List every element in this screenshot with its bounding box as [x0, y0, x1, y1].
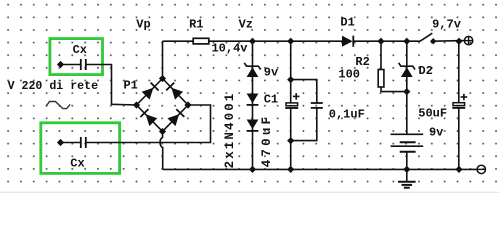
resistor R1: [193, 38, 209, 44]
wire bottom rail: [163, 168, 477, 170]
svg-text:C1: C1: [264, 92, 278, 106]
node zener column bottom: [249, 166, 256, 173]
bottom border line: [0, 191, 499, 193]
wire D2 column: [406, 41, 408, 134]
wire R2 top lead: [380, 41, 382, 69]
capacitor 50uF plates: [453, 103, 465, 106]
svg-text:9v: 9v: [429, 126, 443, 140]
wire 50uF column upper: [458, 41, 460, 102]
node battery bottom: [403, 166, 410, 173]
diode 1N4001 #2: [247, 120, 259, 130]
svg-text:D2: D2: [418, 64, 432, 78]
node 50uF top junction: [455, 38, 462, 45]
switch S1 contact: [430, 38, 436, 44]
node C1 top junction: [287, 38, 294, 45]
terminal - output: [477, 165, 485, 173]
capacitor 0.1uF plates: [311, 102, 323, 104]
switch S1 lever: [420, 33, 432, 41]
svg-text:50uF: 50uF: [418, 106, 447, 120]
capacitor Cx upper: [61, 64, 81, 66]
battery 9v: [391, 133, 424, 135]
wire lower Cx to bridge AC2: [86, 105, 211, 143]
node R2 top junction: [377, 38, 384, 45]
svg-text:Cx: Cx: [70, 156, 84, 170]
capacitor Cx lower: [61, 142, 81, 144]
svg-text:V 220 di rete: V 220 di rete: [8, 80, 98, 93]
node 0.1uF return junction: [287, 137, 294, 144]
svg-text:100: 100: [338, 67, 360, 81]
node C1 bottom: [287, 166, 294, 173]
svg-text:Cx: Cx: [73, 43, 87, 57]
bridge diode lower-left (B to L): [146, 114, 158, 126]
node input terminal lower: [57, 139, 64, 146]
wire zener column: [252, 41, 254, 169]
node 50uF bottom: [455, 166, 462, 173]
svg-text:0,1uF: 0,1uF: [329, 107, 365, 121]
resistor R2 100: [378, 70, 384, 88]
node bridge AC left: [133, 101, 140, 108]
node Vz junction: [249, 38, 256, 45]
node D2 top junction: [403, 38, 410, 45]
node Vp junction (bridge top): [159, 75, 166, 82]
diode 1N4001 #1: [247, 94, 259, 104]
wire bridge+ riser: [162, 41, 164, 78]
AC source symbol: [46, 102, 70, 109]
svg-text:Vp: Vp: [136, 17, 150, 31]
node R2/D2 junction: [403, 88, 410, 95]
wire top rail switch to output: [433, 40, 464, 43]
svg-text:10,4v: 10,4v: [211, 41, 247, 55]
wire top rail R1 to D1: [209, 40, 342, 42]
wire 0.1uF bottom loop to C1 column: [291, 108, 317, 141]
svg-text:470uF: 470uF: [260, 114, 274, 168]
wire C1 column upper: [290, 41, 292, 103]
wire branch to 0.1uF: [291, 80, 317, 103]
wire bridge- to ground rail with hop: [160, 132, 163, 170]
terminal + output: [464, 36, 472, 44]
node bridge minus: [159, 128, 166, 135]
capacitor C1 470uF plus sign: [293, 95, 300, 97]
svg-text:9v: 9v: [264, 66, 278, 80]
bridge diode upper-right (R to T): [171, 88, 183, 100]
wire R2 bottom to D2 column: [381, 87, 407, 92]
wire top rail left segment (bridge+ to R1): [163, 40, 194, 42]
node input terminal upper: [57, 61, 64, 68]
wire C1 column lower: [290, 108, 292, 169]
zener D2: [401, 67, 413, 77]
node 0.1uF branch: [287, 76, 294, 83]
bridge diode lower-right (B to R): [167, 114, 179, 126]
svg-text:2x1N4001: 2x1N4001: [223, 92, 237, 169]
svg-text:9,7v: 9,7v: [432, 18, 461, 32]
node bridge AC right: [184, 101, 191, 108]
green highlight box upper Cx: [50, 39, 103, 75]
wire top rail D1 to switch: [353, 40, 420, 42]
wire 50uF column lower: [458, 108, 460, 169]
svg-text:Vz: Vz: [239, 17, 253, 31]
ground: [406, 169, 408, 181]
svg-text:R1: R1: [189, 17, 203, 31]
capacitor C1 470uF plates: [286, 103, 298, 106]
bridge diode upper-left (L to T): [142, 88, 154, 100]
wire upper Cx to bridge AC1: [86, 65, 137, 106]
diode D1: [342, 36, 353, 47]
wire battery to bottom rail: [406, 152, 408, 170]
svg-text:P1: P1: [123, 78, 137, 92]
svg-text:D1: D1: [340, 15, 354, 29]
green highlight box lower Cx: [41, 123, 120, 174]
zener DZ 9v: [247, 67, 259, 77]
bridge rectifier P1 frame: [137, 79, 189, 132]
capacitor 50uF plus sign: [461, 96, 468, 98]
